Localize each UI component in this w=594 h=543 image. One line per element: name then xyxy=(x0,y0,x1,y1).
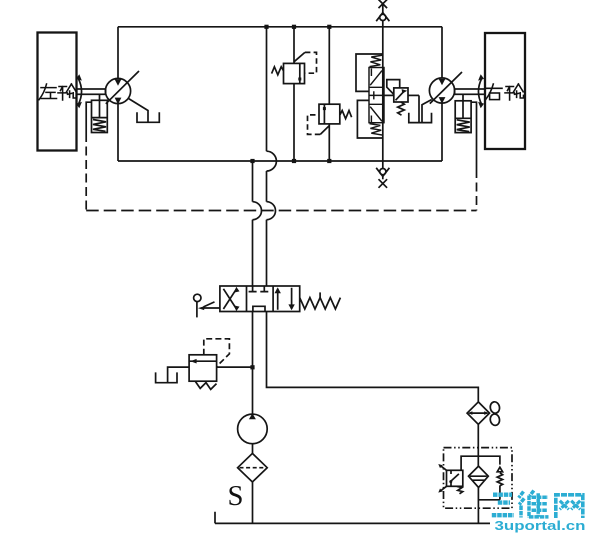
svg-text:S: S xyxy=(228,481,244,512)
svg-text:3uportal.cn: 3uportal.cn xyxy=(495,518,586,533)
